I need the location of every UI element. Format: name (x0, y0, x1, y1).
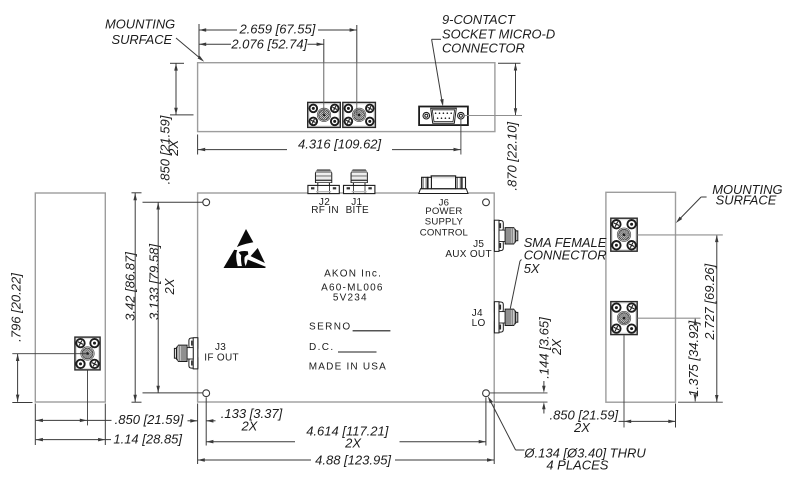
extension front bottom edge right (494, 401, 547, 403)
leader mounting surface right (701, 196, 707, 198)
extension tick top edge (170, 62, 184, 64)
svg-text:D.C.: D.C. (309, 342, 335, 353)
connector J1 SMA side view (front top) (344, 170, 375, 194)
centerline J2 into top view (323, 62, 325, 115)
extension line J1 center (356, 25, 358, 62)
extension right flange center down (623, 335, 625, 427)
svg-text:2.659 [67.55]: 2.659 [67.55] (238, 22, 315, 37)
svg-text:IF OUT: IF OUT (204, 353, 239, 364)
extension right view right edge down (675, 404, 677, 428)
extension line front left edge down (197, 404, 199, 465)
extension connector centerline left (170, 114, 194, 116)
SMA flange right view lower (611, 302, 637, 335)
svg-text:.796 [20.22]: .796 [20.22] (9, 273, 24, 342)
SMA flange left view (75, 337, 100, 370)
connector J2 flange (top view) (308, 102, 341, 127)
svg-text:1.375 [34.92]: 1.375 [34.92] (686, 320, 701, 396)
mounting hole bottom-left (203, 390, 210, 397)
svg-text:4.88 [123.95]: 4.88 [123.95] (315, 453, 391, 468)
leader SMA female connector (520, 260, 522, 262)
svg-text:9-CONTACT: 9-CONTACT (442, 12, 516, 27)
ESD warning symbol (224, 229, 266, 268)
svg-text:CONTROL: CONTROL (420, 227, 469, 238)
centerline right flange lower (638, 317, 701, 319)
svg-text:AUX OUT: AUX OUT (445, 249, 492, 260)
svg-text:4.316 [109.62]: 4.316 [109.62] (298, 136, 382, 151)
leader 9-contact micro-D (432, 38, 441, 40)
svg-text:SURFACE: SURFACE (111, 32, 172, 47)
extension line front right edge down (493, 404, 495, 465)
connector J4 SMA side view (front right) (494, 302, 517, 333)
connector J6 micro-D side view (front top) (419, 176, 468, 194)
connector J5 SMA side view (front right) (494, 220, 517, 251)
svg-text:SERNO: SERNO (309, 321, 352, 332)
mounting hole top-right (483, 199, 490, 206)
extension line lower hole (143, 392, 203, 394)
micro-D connector (top view) (419, 107, 468, 126)
svg-text:LO: LO (472, 318, 486, 329)
centerline left flange (12, 353, 86, 355)
svg-text:5X: 5X (524, 261, 540, 276)
svg-text:1.14 [28.85]: 1.14 [28.85] (113, 432, 182, 447)
extension right view bottom edge (678, 401, 723, 403)
svg-text:3.133 [79.58]: 3.133 [79.58] (146, 244, 161, 320)
svg-text:CONNECTOR: CONNECTOR (442, 41, 525, 56)
left side view outline (35, 193, 105, 402)
svg-text:AKON Inc.: AKON Inc. (324, 269, 382, 280)
connector J2 SMA side view (front top) (308, 170, 339, 194)
svg-text:MADE IN USA: MADE IN USA (309, 362, 387, 373)
svg-text:2X: 2X (166, 139, 181, 157)
svg-text:J3: J3 (215, 342, 226, 353)
extension line hole left down (205, 397, 207, 445)
mounting hole top-left (203, 199, 210, 206)
extension line left view left edge (34, 404, 36, 446)
connector J1 flange (top view) (343, 102, 376, 127)
svg-text:SOCKET MICRO-D: SOCKET MICRO-D (442, 26, 555, 41)
extension tick top right (498, 62, 521, 64)
connector J3 SMA side view (front left) (174, 338, 197, 369)
leader mounting surface top-left (176, 38, 202, 60)
extension tick left view bottom (12, 402, 32, 404)
centerline J1 into top view (356, 62, 358, 115)
svg-text:2X: 2X (240, 419, 258, 434)
centerline micro-D to dimension (464, 115, 522, 117)
mounting hole bottom-right (483, 390, 490, 397)
svg-text:.870 [22.10]: .870 [22.10] (504, 122, 519, 191)
extension line left view right edge (104, 404, 106, 446)
svg-text:2.076 [52.74]: 2.076 [52.74] (230, 37, 307, 52)
svg-text:POWER: POWER (425, 206, 462, 217)
centerline right flange upper (638, 234, 723, 236)
svg-text:2X: 2X (162, 277, 177, 295)
extension tick front top-left (132, 192, 142, 194)
extension line hole right down (485, 397, 487, 445)
SMA flange right view upper (611, 218, 637, 251)
svg-text:.850 [21.59]: .850 [21.59] (115, 412, 184, 427)
svg-text:RF IN: RF IN (311, 205, 339, 216)
svg-text:2X: 2X (344, 436, 362, 451)
extension line micro-D screw center (460, 119, 462, 154)
extension tick front bottom-left (132, 401, 142, 403)
svg-text:4 PLACES: 4 PLACES (546, 458, 608, 473)
svg-text:BITE: BITE (346, 205, 369, 216)
svg-text:5V234: 5V234 (333, 293, 368, 304)
extension hole bottom-right to dim (490, 392, 548, 394)
svg-text:2.727 [69.26]: 2.727 [69.26] (702, 263, 717, 340)
leader thru holes (488, 396, 493, 403)
extension line upper hole (143, 201, 203, 203)
front view outline (198, 193, 495, 402)
svg-text:SUPPLY: SUPPLY (425, 217, 464, 228)
svg-text:MOUNTING: MOUNTING (105, 16, 175, 31)
top view outline (198, 63, 495, 132)
right side view outline (606, 192, 676, 402)
extension line J2 center (323, 39, 325, 62)
svg-text:2X: 2X (549, 338, 564, 356)
extension line left edge below top view (197, 135, 199, 155)
extension line left flange center down (87, 370, 89, 425)
svg-text:SURFACE: SURFACE (716, 193, 777, 208)
extension line left edge top (198, 24, 200, 59)
svg-text:2X: 2X (573, 420, 591, 435)
